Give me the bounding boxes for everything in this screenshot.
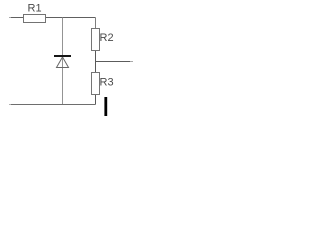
svg-text:R1: R1 (28, 3, 42, 15)
svg-text:R2: R2 (100, 32, 114, 44)
svg-text:R3: R3 (100, 77, 114, 89)
